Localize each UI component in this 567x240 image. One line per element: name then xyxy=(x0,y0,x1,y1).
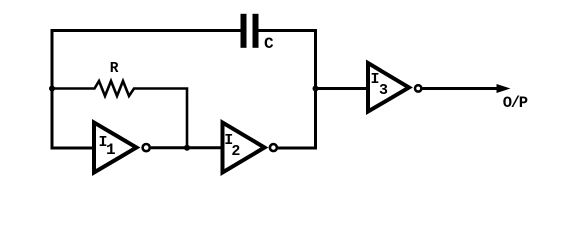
svg-text:O/P: O/P xyxy=(503,94,528,112)
svg-text:C: C xyxy=(264,35,274,53)
svg-text:1: 1 xyxy=(106,141,116,159)
svg-text:R: R xyxy=(110,61,119,77)
svg-text:2: 2 xyxy=(231,143,240,160)
svg-text:3: 3 xyxy=(379,82,388,99)
